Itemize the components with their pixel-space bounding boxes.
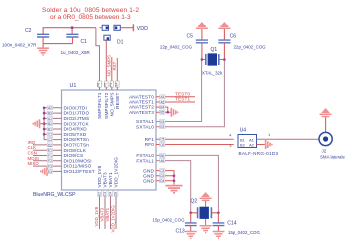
wire U4 pin2 stub (257, 144, 265, 146)
svg-text:NO_SMPS: NO_SMPS (107, 55, 112, 77)
capacitor C2 (2, 28, 49, 48)
svg-text:D1: D1 (117, 40, 124, 46)
svg-text:A2: A2 (249, 143, 255, 148)
ground arrow left of bus (33, 119, 44, 128)
svg-text:A4: A4 (160, 95, 164, 99)
svg-text:RF0: RF0 (145, 142, 155, 147)
ground arrow under gnd pins (166, 186, 183, 193)
power VDD flag (133, 24, 148, 32)
svg-text:DIO8/CLK: DIO8/CLK (64, 148, 87, 153)
wire gnd stub (42, 44, 44, 48)
svg-text:DIO6/RTSn: DIO6/RTSn (64, 137, 90, 142)
svg-text:TEST1: TEST1 (175, 97, 191, 102)
svg-text:D5: D5 (114, 192, 118, 196)
ground arrow up above SMA (320, 108, 332, 132)
U1 bottom pin names vertical (97, 157, 119, 188)
svg-text:B2: B2 (240, 143, 246, 148)
svg-text:100n_0402_X7R: 100n_0402_X7R (2, 43, 37, 48)
svg-text:DIO2/JTMS: DIO2/JTMS (64, 116, 90, 121)
wire pad2 to VDD (120, 27, 133, 29)
svg-text:VDD_1V8: VDD_1V8 (94, 206, 99, 226)
svg-text:RST: RST (112, 61, 117, 70)
U1 right pin names (129, 94, 154, 183)
wire RF1 to balun (156, 138, 234, 140)
svg-text:U1: U1 (70, 83, 77, 89)
U1 top pin stubs (100, 84, 118, 90)
pin number E4 (114, 81, 119, 87)
ground arrow below C13 (185, 232, 197, 239)
svg-text:VBAT3: VBAT3 (100, 207, 105, 221)
svg-text:DIO7/CTSn: DIO7/CTSn (64, 143, 90, 148)
U1 left pin names (64, 105, 95, 174)
svg-text:C3: C3 (160, 169, 164, 173)
capacitor C14 (213, 213, 261, 235)
svg-text:E1: E1 (48, 149, 52, 153)
wire C2 bottom lead (42, 37, 44, 44)
svg-text:F1: F1 (48, 154, 52, 158)
svg-text:F2: F2 (48, 159, 52, 163)
svg-text:C14: C14 (227, 220, 236, 226)
svg-text:FXTAL1: FXTAL1 (136, 158, 154, 163)
connector J2 SMA (319, 132, 345, 159)
wire C2 top lead (42, 27, 44, 34)
node ANATEST3 junction (167, 111, 170, 114)
svg-text:ANATEST3: ANATEST3 (129, 110, 154, 115)
svg-text:VDD_1V8: VDD_1V8 (97, 165, 102, 187)
wires IRQ CLK CSN MOSI MISO (33, 145, 62, 166)
wire C1 bottom lead (72, 37, 74, 44)
svg-text:VBAT1: VBAT1 (108, 172, 113, 187)
capacitor C1 (61, 34, 91, 55)
svg-text:B6: B6 (160, 154, 164, 158)
svg-text:DIO5/TXD: DIO5/TXD (64, 132, 87, 137)
solder pad D1-3 (104, 35, 124, 45)
svg-text:CLK: CLK (28, 145, 37, 150)
capacitor C5 (160, 29, 208, 60)
left pin wires rows 0-5 (44, 108, 61, 135)
svg-text:DIO4/RXD: DIO4/RXD (64, 127, 88, 132)
svg-text:or a 0R0_0805 between 1-3: or a 0R0_0805 between 1-3 (50, 14, 131, 21)
svg-text:MISO: MISO (28, 161, 40, 166)
svg-text:C5: C5 (160, 138, 164, 142)
ground arrow DIO12 (41, 167, 47, 176)
left pin number boxes (47, 106, 52, 173)
svg-text:GND: GND (143, 179, 154, 184)
svg-text:D4: D4 (160, 179, 164, 183)
node Q1 left junction (201, 58, 204, 61)
wire FXTAL1 route (156, 161, 191, 213)
svg-text:A1: A1 (48, 117, 52, 121)
node Q2 left junction (189, 212, 192, 215)
node Q1 right junction (223, 58, 226, 61)
svg-text:DIO10/MOSI: DIO10/MOSI (64, 158, 92, 163)
solder pad D1-2 (114, 25, 120, 30)
svg-text:J2: J2 (322, 148, 327, 153)
balun U4 (238, 127, 279, 156)
svg-text:D4: D4 (109, 192, 113, 196)
pin number F6 (97, 81, 102, 87)
svg-text:C13: C13 (176, 228, 185, 234)
svg-text:A6: A6 (160, 159, 164, 163)
crystal Q2 (191, 198, 212, 219)
ground arrow up above C5 (196, 22, 208, 28)
svg-text:1u_0402_X5R: 1u_0402_X5R (61, 50, 91, 55)
wire pad3 down to pin F5 (105, 40, 107, 84)
svg-text:Q2: Q2 (191, 198, 198, 204)
svg-text:C2: C2 (25, 28, 32, 34)
svg-text:DIO11/MISO: DIO11/MISO (64, 164, 92, 169)
pin number F5 (103, 81, 108, 87)
svg-text:F5: F5 (103, 83, 107, 87)
svg-text:RESET: RESET (115, 93, 120, 109)
ground arrow up above C6 (218, 22, 230, 28)
svg-text:VDD: VDD (137, 26, 148, 32)
svg-text:U4: U4 (240, 127, 247, 133)
svg-text:15p_0402_COG: 15p_0402_COG (153, 218, 186, 223)
svg-text:DIO9/CS: DIO9/CS (64, 153, 84, 158)
svg-text:E6: E6 (160, 120, 164, 124)
U1 top pin names (97, 92, 120, 119)
svg-text:VBAT3: VBAT3 (103, 172, 108, 187)
wire ANATEST3 (156, 111, 171, 113)
node Q2 right junction (217, 212, 220, 215)
svg-text:F4: F4 (109, 83, 113, 87)
svg-text:C6: C6 (230, 34, 237, 40)
wire FXTAL junction leads (191, 212, 219, 214)
pin number F4 (109, 81, 114, 87)
U1 right pin stubs ANATEST0-1 wires (156, 97, 195, 102)
svg-text:A5: A5 (160, 100, 164, 104)
wire left bus (44, 108, 61, 140)
svg-text:SXTAL0: SXTAL0 (136, 124, 154, 129)
svg-text:E4: E4 (114, 82, 118, 86)
svg-text:E3: E3 (48, 170, 52, 174)
wire RST stub (116, 58, 118, 84)
node gnd junctions (173, 174, 176, 177)
svg-text:22p_0402_COG: 22p_0402_COG (160, 44, 193, 49)
svg-text:C4: C4 (103, 192, 107, 196)
svg-text:VDD_1V2DIG: VDD_1V2DIG (111, 205, 116, 233)
ground arrow right ANATEST3 (171, 108, 177, 117)
svg-text:SMA laterale: SMA laterale (320, 154, 345, 159)
svg-text:XTAL_32k: XTAL_32k (202, 71, 223, 76)
wire SXTAL1 route (156, 60, 202, 122)
svg-text:DIO1/JTDO: DIO1/JTDO (64, 111, 90, 116)
svg-text:DIO0/JTDI: DIO0/JTDI (64, 105, 87, 110)
svg-text:F6: F6 (97, 83, 101, 87)
svg-text:VDD_1V2DIG: VDD_1V2DIG (114, 157, 119, 188)
svg-text:E5: E5 (160, 125, 164, 129)
ground arrow down below Q2 (200, 219, 212, 233)
svg-text:C6: C6 (160, 143, 164, 147)
svg-text:B3: B3 (48, 112, 52, 116)
svg-text:C1: C1 (48, 133, 52, 137)
wire gnd link horizontal (43, 43, 72, 45)
svg-text:C5: C5 (187, 34, 194, 40)
capacitor C6 (218, 29, 266, 60)
bottom pin number boxes (98, 190, 118, 196)
svg-text:D3: D3 (160, 174, 164, 178)
ground under C2 (37, 48, 49, 55)
svg-text:DIO12/FTEST: DIO12/FTEST (64, 169, 95, 174)
ground arrow up above Q2 (200, 192, 212, 207)
wire SMPSFILT1 top horizontal (43, 27, 96, 29)
crystal Q1 (202, 47, 225, 76)
svg-text:15p_0402_COG: 15p_0402_COG (228, 230, 261, 235)
wire C1 top lead (71, 28, 73, 34)
svg-text:NO_SMPS: NO_SMPS (110, 93, 115, 117)
svg-text:VBAT1: VBAT1 (105, 207, 110, 221)
svg-text:C2: C2 (48, 138, 52, 142)
wire U4 pin1 to SMA (257, 138, 320, 140)
ground arrow below C14 (213, 232, 225, 239)
note text solder instructions (42, 7, 139, 21)
wire FXTAL0 route (156, 155, 218, 212)
wire RF0 to balun (156, 144, 234, 146)
wire NO_SMPS stub (111, 57, 113, 84)
wire GND pins (156, 171, 174, 185)
svg-text:BALF-NRG-01D3: BALF-NRG-01D3 (239, 151, 279, 156)
svg-text:SMPSFILT1: SMPSFILT1 (97, 92, 102, 119)
svg-text:B2: B2 (48, 122, 52, 126)
svg-text:C1: C1 (81, 39, 88, 45)
solder pad D1-1 (100, 25, 109, 30)
svg-text:DIO3/JTCK: DIO3/JTCK (64, 121, 90, 126)
svg-text:SMPSFILT2: SMPSFILT2 (104, 92, 109, 119)
node junction C1 top (71, 26, 74, 29)
svg-text:A2: A2 (48, 106, 52, 110)
wire corner drop to pin F6 (96, 28, 100, 84)
right pin number boxes (160, 95, 165, 183)
svg-text:B5: B5 (160, 111, 164, 115)
U1 bottom pin stubs (100, 190, 117, 229)
wire DIO12 stub (48, 170, 62, 172)
svg-text:D2: D2 (48, 143, 52, 147)
wire ANATEST2 to junction (156, 107, 168, 112)
svg-text:22p_0402_COG: 22p_0402_COG (234, 44, 267, 49)
svg-text:MOSI: MOSI (28, 156, 39, 161)
ground arrow right U4 pin2 (266, 140, 272, 149)
node bus junctions (43, 107, 46, 136)
svg-text:F3: F3 (48, 165, 52, 169)
svg-text:BlueNRG_WLCSP: BlueNRG_WLCSP (33, 192, 76, 198)
op chip U1 body (33, 83, 156, 198)
svg-text:Q1: Q1 (211, 47, 218, 53)
svg-text:IRQ: IRQ (28, 140, 36, 145)
svg-text:B1: B1 (48, 127, 52, 131)
svg-text:CSN: CSN (28, 151, 37, 156)
svg-text:E2: E2 (98, 192, 102, 196)
svg-text:B4: B4 (160, 106, 164, 110)
wire SXTAL0 route (156, 60, 224, 127)
capacitor C13 (153, 213, 197, 235)
